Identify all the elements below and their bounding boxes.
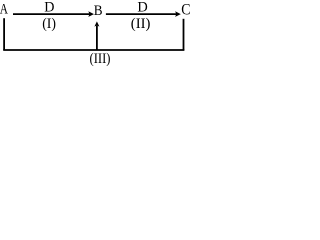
- svg-text:C: C: [181, 2, 190, 19]
- wire C down (right side of bypass): [183, 19, 185, 50]
- label D (arrow II): [137, 0, 148, 15]
- node A: [0, 1, 8, 17]
- label (II): [131, 16, 151, 32]
- label (I): [42, 16, 56, 32]
- label (III): [90, 51, 111, 67]
- svg-text:D: D: [44, 0, 54, 15]
- svg-text:(I): (I): [42, 16, 56, 32]
- node C: [181, 2, 190, 19]
- label D (arrow I): [44, 0, 54, 15]
- wire bottom (bypass A to C): [3, 49, 184, 51]
- svg-text:(II): (II): [131, 16, 151, 32]
- wire B to C: [106, 11, 181, 17]
- wire A to B: [13, 11, 94, 17]
- svg-text:A: A: [0, 1, 8, 17]
- wire up into B (arrow III): [94, 21, 99, 50]
- wire A down (left side of bypass): [3, 18, 5, 50]
- svg-text:D: D: [137, 0, 148, 15]
- svg-text:B: B: [94, 3, 103, 19]
- svg-text:(III): (III): [90, 51, 111, 67]
- node B: [94, 3, 103, 19]
